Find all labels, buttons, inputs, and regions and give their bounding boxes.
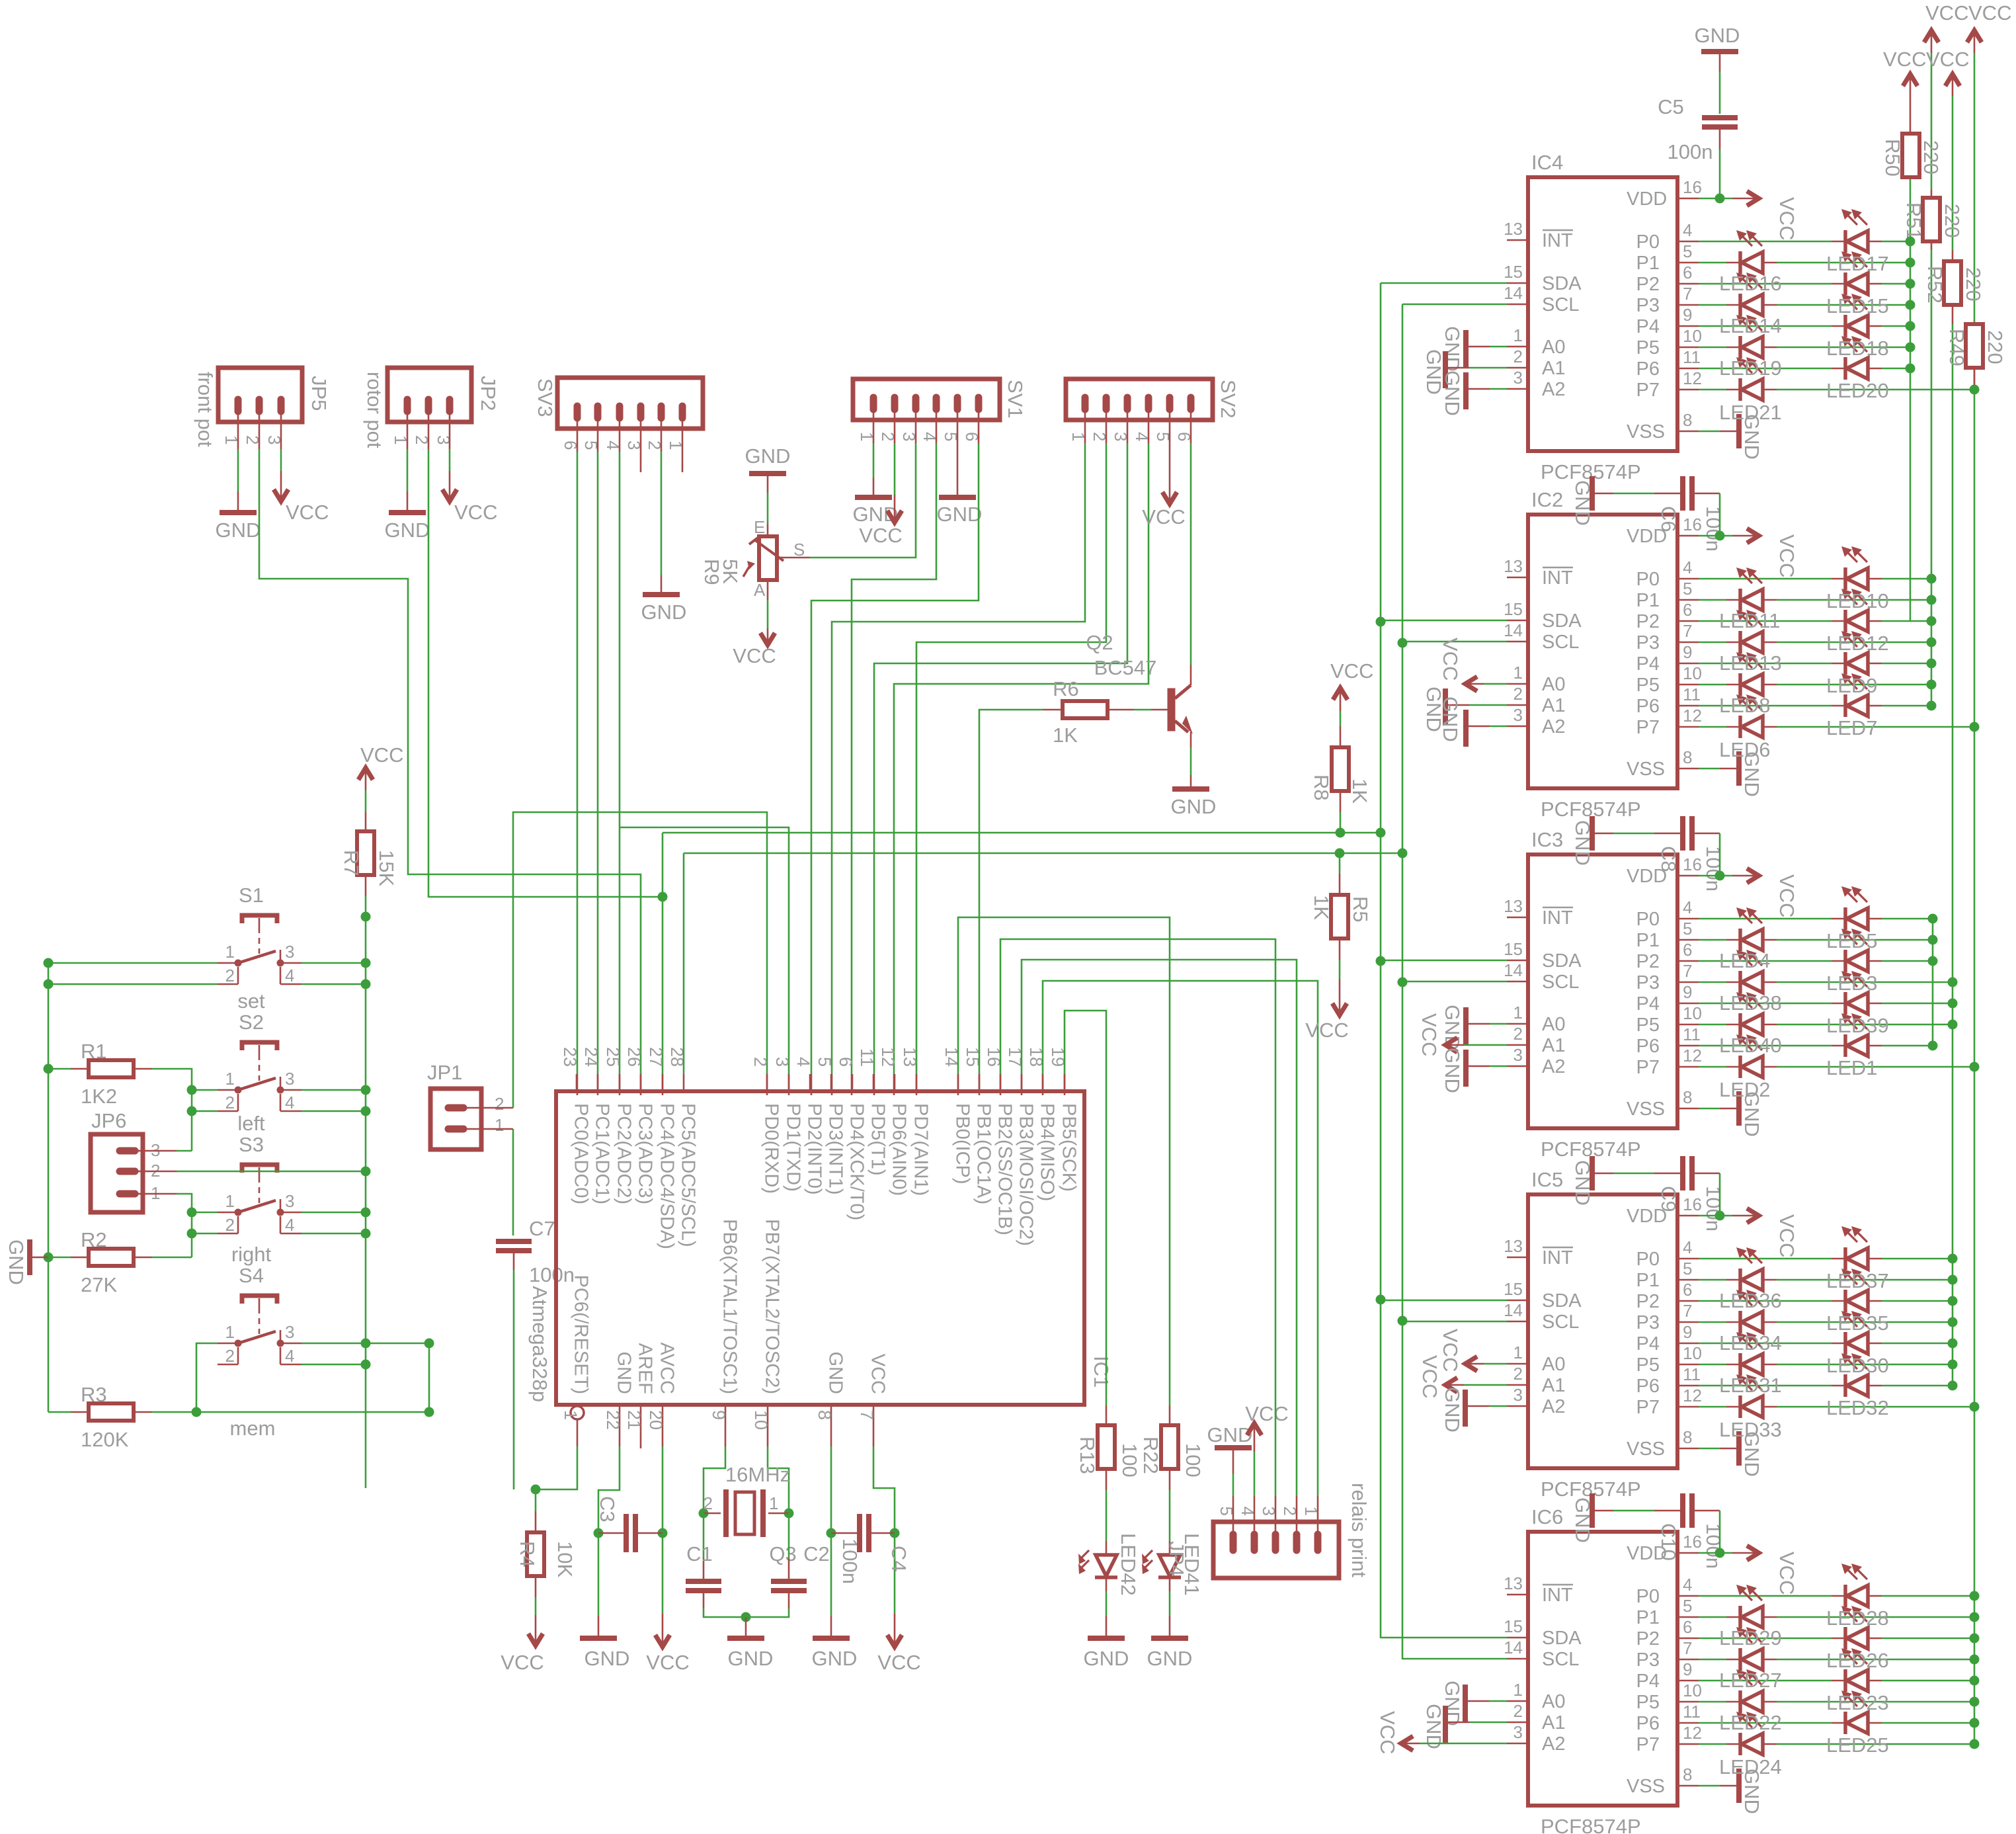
svg-text:1K2: 1K2 [81,1085,117,1108]
svg-text:VCC: VCC [1418,1355,1441,1398]
capacitor C9 100n [1571,1156,1725,1231]
ground GND (Q2) [1171,775,1217,818]
svg-text:PD0(RXD): PD0(RXD) [761,1103,782,1194]
wire R9 E to GND [767,493,769,536]
LED LED12 [1832,589,1882,632]
wire IC6 P1 row [1636,1596,1980,1628]
resistor R5 1K [1310,895,1372,938]
wire IC5 SDA [1381,1279,1582,1312]
svg-text:VCC: VCC [733,644,776,667]
capacitor C4 100n [831,1514,910,1572]
wire IC4 P7 row [1636,368,1980,401]
LED LED30 [1832,1311,1882,1355]
wire IC2 P6 row [1636,685,1937,717]
svg-text:12: 12 [1683,1046,1702,1065]
wire IC5 VDD to VCC [1627,1194,1798,1257]
svg-text:LED28: LED28 [1826,1606,1889,1630]
LED LED23 [1832,1648,1882,1692]
svg-text:6: 6 [1683,1280,1692,1300]
capacitor C2 100n [741,1513,862,1622]
wire IC5 P7 row [1636,1386,1980,1418]
svg-text:A2: A2 [1542,379,1565,400]
svg-text:LED21: LED21 [1719,401,1782,424]
wire IC5 VSS to GND [1627,1427,1763,1477]
svg-text:11: 11 [1683,1702,1701,1722]
svg-text:3: 3 [434,435,454,444]
svg-text:LED31: LED31 [1719,1374,1782,1397]
wire left rail [44,963,54,1412]
wire SV2 pin2 to IC1 pin13 [916,420,1106,1095]
wire IC3 P6 row [1636,1024,1938,1057]
svg-text:5: 5 [1683,241,1692,261]
wire IC1 pin14 to R22 [958,917,1170,1425]
LED LED10 [1832,546,1882,590]
connector JP2 (rotor pot) [363,368,500,448]
svg-text:10: 10 [751,1410,771,1430]
svg-text:SV2: SV2 [1217,380,1240,419]
wire IC6 SCL [1402,1638,1579,1670]
IC IC3 PCF8574P [1528,828,1677,1161]
svg-text:2: 2 [225,1093,235,1112]
svg-text:A2: A2 [1542,1396,1565,1417]
wire IC5 P0 row [1636,1237,1958,1270]
svg-text:9: 9 [1683,982,1692,1002]
svg-text:AVCC: AVCC [657,1343,678,1394]
svg-text:2: 2 [1513,347,1523,366]
svg-text:P5: P5 [1636,675,1660,696]
wire S3 row1 [187,1208,366,1218]
LED LED18 [1832,294,1882,337]
svg-text:27K: 27K [81,1273,117,1296]
power VCC (R9 A) [733,580,776,667]
svg-text:27: 27 [646,1047,666,1067]
LED LED39 [1832,971,1882,1015]
LED LED42 [1078,1533,1140,1616]
wire JP2 pin1 to GND [407,422,409,491]
svg-text:C5: C5 [1658,95,1684,118]
svg-text:P5: P5 [1636,1692,1660,1713]
svg-text:VCC: VCC [867,1354,889,1394]
svg-text:PD7(AIN1): PD7(AIN1) [910,1103,932,1196]
svg-text:VCC: VCC [1926,48,1969,71]
svg-text:SV3: SV3 [534,378,557,417]
IC2 LED labels [1719,589,1889,761]
wire SV1 pin1 to GND [873,420,875,478]
wire Q2 emitter to GND [1190,732,1192,775]
ground GND (JP5) [216,491,261,542]
wire JP5 pin1 to GND [237,422,239,491]
svg-text:13: 13 [1504,556,1523,576]
svg-text:P2: P2 [1636,611,1660,632]
svg-text:3: 3 [285,942,294,962]
svg-text:PB4(MISO): PB4(MISO) [1037,1103,1058,1201]
power VCC (R7 top) [358,743,403,832]
wire IC4 SCL [1402,283,1579,315]
wire IC1 pin8 to GND [815,1405,836,1616]
svg-text:LED23: LED23 [1826,1691,1889,1714]
svg-text:P7: P7 [1636,380,1660,401]
svg-text:R50: R50 [1881,139,1904,177]
svg-text:R51: R51 [1902,202,1925,240]
svg-text:C4: C4 [887,1546,910,1572]
wire SV1 pin5 to GND [957,420,959,478]
svg-text:P5: P5 [1636,1015,1660,1036]
wire IC6 P5 row [1636,1681,1980,1713]
svg-text:IC1: IC1 [1090,1356,1113,1388]
ground GND (crystal) [727,1617,773,1670]
svg-text:1: 1 [1513,663,1523,683]
svg-text:GND: GND [937,503,983,526]
svg-text:3: 3 [772,1057,792,1067]
resistor R2 27K [48,1228,192,1296]
wire LED bus v4 [1974,53,1976,1744]
wire IC3 A0 A1 A2 address pins [1507,1003,1565,1077]
svg-text:6: 6 [1683,600,1692,620]
svg-text:21: 21 [624,1410,644,1430]
LED LED3 [1832,929,1882,972]
svg-text:LED32: LED32 [1826,1396,1889,1419]
svg-text:P1: P1 [1636,930,1660,951]
svg-text:VCC: VCC [1439,638,1462,681]
wire IC3 SCL [1402,960,1579,993]
wire IC1 pin22 to GND [594,1405,624,1616]
wire IC6 P2 row [1636,1617,1980,1649]
svg-text:rotor pot: rotor pot [363,372,386,448]
resistor R4 10K [516,1489,577,1577]
wire IC2 P2 row [1636,600,1937,632]
LED LED8 [1726,652,1777,696]
wire IC6 P0 row [1636,1575,1980,1607]
svg-text:11: 11 [1683,1024,1701,1044]
wire IC3 P5 row [1636,1003,1958,1036]
connector SV1 [853,379,1027,441]
svg-text:LED40: LED40 [1719,1034,1782,1057]
wire IC4 A0 A1 A2 address pins [1507,325,1565,400]
wire R8 bottom to SDA bus [1336,791,1346,838]
svg-text:LED10: LED10 [1826,589,1889,612]
svg-text:LED24: LED24 [1719,1755,1782,1778]
svg-text:PC5(ADC5/SCL): PC5(ADC5/SCL) [678,1103,699,1247]
svg-text:PC3(ADC3): PC3(ADC3) [635,1103,656,1204]
wire SV2 pin6 to Q2 collector [1190,420,1192,665]
svg-text:9: 9 [1683,305,1692,325]
LED LED21 [1726,357,1777,401]
svg-text:S: S [793,540,805,560]
LED LED37 [1832,1226,1882,1270]
LED LED19 [1726,315,1777,358]
ground GND (SV1 pin5) [937,478,983,526]
svg-text:P5: P5 [1636,337,1660,358]
svg-text:P5: P5 [1636,1355,1660,1376]
wire IC4 P4 row [1636,305,1915,337]
svg-text:LED7: LED7 [1826,716,1878,739]
svg-text:100n: 100n [1668,140,1713,163]
wire IC6 A0 A1 A2 address pins [1507,1680,1565,1755]
svg-text:1K: 1K [1310,895,1333,920]
wire IC2 SCL [1402,620,1579,653]
svg-text:GND: GND [216,519,261,542]
svg-text:15K: 15K [375,850,398,886]
svg-text:P4: P4 [1636,993,1660,1015]
svg-text:P0: P0 [1636,1249,1660,1270]
svg-text:25: 25 [603,1047,623,1067]
svg-text:4: 4 [1683,1237,1692,1257]
svg-text:4: 4 [285,966,294,985]
capacitor C6 100n [1571,476,1725,552]
svg-text:VCC: VCC [1968,1,2011,24]
wire LED bus v1 [1910,177,1912,621]
wire IC5 P5 row [1636,1343,1958,1376]
svg-text:LED25: LED25 [1826,1733,1889,1757]
svg-text:P3: P3 [1636,1312,1660,1333]
wire SDA bus [663,283,1386,1638]
svg-text:LED36: LED36 [1719,1289,1782,1312]
svg-text:mem: mem [230,1417,276,1440]
wire IC2 P0 row [1636,558,1937,590]
svg-text:P1: P1 [1636,1607,1660,1628]
wire IC3 P7 row [1636,1046,1980,1078]
pin IC4 INT stub [1504,219,1573,251]
svg-text:14: 14 [1504,620,1523,640]
svg-text:1: 1 [1513,1343,1523,1362]
wire IC6 P6 row [1636,1702,1980,1734]
svg-text:SDA: SDA [1542,1290,1582,1312]
svg-text:GND: GND [1207,1423,1253,1446]
svg-text:5: 5 [1683,1596,1692,1616]
switch S1 [218,884,302,985]
svg-text:VCC: VCC [501,1651,544,1674]
wire SV3 pin4 to IC1 pin25 [619,429,621,1095]
svg-text:7: 7 [857,1410,877,1420]
svg-text:LED3: LED3 [1826,972,1878,995]
wire IC3 VSS to GND [1627,1087,1763,1137]
wire LED bus v3 [1952,96,1954,1386]
svg-text:LED33: LED33 [1719,1418,1782,1441]
svg-text:GND: GND [1571,1497,1594,1543]
svg-text:A1: A1 [1542,358,1565,379]
wire S1 row1 [44,958,366,968]
power VCC (R8 top) [1330,659,1373,747]
svg-text:VCC: VCC [454,501,497,524]
wire IC2 P3 row [1636,621,1937,653]
svg-text:1: 1 [225,1191,235,1211]
svg-text:PB3(MOSI/OC2): PB3(MOSI/OC2) [1016,1103,1037,1246]
svg-text:SCL: SCL [1542,1312,1579,1333]
svg-text:VDD: VDD [1627,1206,1667,1227]
LED LED26 [1832,1606,1882,1649]
svg-text:LED14: LED14 [1719,314,1782,337]
svg-text:Q3: Q3 [769,1542,796,1565]
svg-text:A1: A1 [1542,1375,1565,1396]
svg-text:PB2(SS/OC1B): PB2(SS/OC1B) [994,1103,1016,1235]
svg-text:SDA: SDA [1542,610,1582,632]
resistor R3 120K [48,1383,196,1451]
svg-text:right: right [231,1243,272,1266]
wire IC2 VSS to GND [1627,747,1763,797]
svg-text:GND: GND [385,519,430,542]
svg-text:14: 14 [1504,1638,1523,1657]
LED LED16 [1726,230,1777,274]
power VCC (JP2 pin3) [442,422,497,524]
wire S2 row2 [187,1106,366,1116]
svg-text:JP1: JP1 [427,1061,462,1084]
ground GND (IC4 A0) [1441,326,1507,372]
svg-text:R13: R13 [1076,1437,1099,1474]
svg-text:R52: R52 [1923,266,1947,304]
svg-text:P1: P1 [1636,253,1660,274]
svg-text:20: 20 [646,1410,666,1430]
svg-text:10: 10 [1683,1681,1702,1700]
LED LED1 [1832,1013,1882,1057]
svg-text:12: 12 [1683,706,1702,726]
svg-text:4: 4 [1683,1575,1692,1595]
svg-text:15: 15 [1504,262,1523,282]
svg-text:PC1(ADC1): PC1(ADC1) [592,1103,613,1204]
svg-text:P2: P2 [1636,1628,1660,1649]
svg-text:1K: 1K [1348,778,1371,804]
svg-text:INT: INT [1542,567,1573,589]
svg-text:11: 11 [1683,685,1701,704]
svg-text:LED34: LED34 [1719,1331,1782,1355]
wire IC6 VSS to GND [1627,1765,1763,1814]
svg-text:100: 100 [1118,1443,1141,1478]
svg-text:PC6(/RESET): PC6(/RESET) [571,1275,592,1394]
svg-text:P0: P0 [1636,231,1660,253]
wire IC2 SDA [1381,599,1582,632]
svg-text:9: 9 [1683,1322,1692,1342]
power VCC (JP5 pin3) [274,422,329,524]
resistor R51 220 [1902,190,1964,250]
svg-text:16: 16 [1683,515,1702,534]
ground GND (left rail) [5,1239,48,1285]
ground GND (IC6 A1) [1422,1704,1507,1749]
IC1 pin1 RESET [531,1406,585,1495]
wire IC6 P3 row [1636,1638,1980,1671]
svg-text:23: 23 [560,1047,580,1067]
svg-text:C1: C1 [686,1542,713,1565]
wire R9 S lead [777,557,784,559]
resistor R13 100 [1076,1425,1141,1541]
wire IC6 VDD to VCC [1627,1532,1798,1595]
LED LED35 [1832,1269,1882,1312]
resistor R8 1K [1310,747,1371,804]
svg-text:VCC: VCC [286,501,329,524]
svg-text:1: 1 [1513,1003,1523,1022]
svg-text:VCC: VCC [1925,1,1968,24]
svg-text:P2: P2 [1636,1291,1660,1312]
LED LED13 [1726,610,1777,653]
wire IC2 P4 row [1636,642,1937,675]
LED LED31 [1726,1332,1777,1376]
svg-text:P2: P2 [1636,274,1660,295]
svg-text:R4: R4 [516,1541,539,1567]
svg-text:SCL: SCL [1542,632,1579,653]
svg-text:LED35: LED35 [1826,1312,1889,1335]
svg-text:2: 2 [1513,684,1523,704]
svg-text:16MHz: 16MHz [725,1463,790,1486]
svg-text:100n: 100n [1702,1186,1725,1231]
svg-text:SDA: SDA [1542,1628,1582,1649]
svg-text:LED42: LED42 [1117,1533,1140,1596]
svg-text:P0: P0 [1636,1586,1660,1607]
svg-text:1: 1 [225,1069,235,1089]
svg-text:GND: GND [585,1647,630,1670]
LED LED41 [1142,1533,1203,1616]
svg-text:PB6(XTAL1/TOSC1): PB6(XTAL1/TOSC1) [719,1219,741,1394]
wire IC3 P1 row [1636,919,1938,951]
svg-text:GND: GND [1422,1704,1445,1749]
LED LED2 [1726,1034,1777,1078]
svg-text:VCC: VCC [1775,534,1798,577]
svg-text:11: 11 [1683,1364,1701,1384]
svg-text:SCL: SCL [1542,294,1579,315]
svg-text:P4: P4 [1636,1333,1660,1355]
LED LED38 [1726,950,1777,993]
ground GND (JP4 pin5) [1207,1423,1253,1522]
wire IC5 P3 row [1636,1301,1958,1333]
svg-text:R8: R8 [1310,774,1333,801]
wire IC6 P7 row [1636,1723,1980,1755]
capacitor C10 100n [1571,1493,1725,1569]
svg-text:VCC: VCC [1775,1214,1798,1257]
svg-text:26: 26 [624,1047,644,1067]
power VCC (SV2 pin5) [1142,420,1185,528]
LED LED20 [1832,336,1882,380]
wire IC5 P1 row [1636,1259,1958,1291]
svg-text:16: 16 [1683,1194,1702,1214]
svg-text:3: 3 [1513,1722,1523,1742]
svg-text:LED8: LED8 [1719,694,1771,717]
svg-text:P1: P1 [1636,1270,1660,1291]
svg-text:PB7(XTAL2/TOSC2): PB7(XTAL2/TOSC2) [762,1219,783,1394]
svg-text:VSS: VSS [1627,1099,1665,1120]
IC IC5 PCF8574P [1528,1168,1677,1501]
ground GND (R9) [745,444,791,493]
svg-text:GND: GND [1571,820,1594,866]
svg-text:GND: GND [641,601,687,624]
ground GND (IC6 A0) [1441,1681,1507,1726]
wire IC5 P6 row [1636,1364,1958,1397]
svg-text:A0: A0 [1542,674,1565,695]
capacitor C7 100n [496,1217,575,1489]
ground GND (IC3 A2) [1441,1048,1507,1093]
wire JP1 pin2 to IC1 pin2 [481,812,767,1108]
svg-text:LED30: LED30 [1826,1354,1889,1377]
resistor R1 1K2 [48,1040,192,1151]
LED LED34 [1726,1290,1777,1333]
wire JP6 pin1 to S3 [143,1194,192,1257]
svg-text:LED38: LED38 [1719,991,1782,1015]
svg-text:14: 14 [1504,1300,1523,1320]
wire IC5 SCL [1402,1300,1579,1333]
svg-text:R22: R22 [1139,1437,1162,1474]
wire IC4 P1 row [1636,241,1915,274]
svg-text:VCC: VCC [859,524,902,547]
pin IC6 INT stub [1504,1573,1573,1606]
svg-text:100n: 100n [1702,846,1725,892]
svg-text:PD5(T1): PD5(T1) [867,1103,889,1176]
svg-text:8: 8 [1683,747,1692,767]
ground GND (C5) [1695,24,1740,114]
svg-text:VSS: VSS [1627,421,1665,442]
svg-text:10: 10 [1683,1003,1702,1023]
svg-text:INT: INT [1542,1585,1573,1606]
wire JP6 pin2 to rail [143,1171,366,1173]
wire IC1 pin9 to crystal [699,1405,729,1519]
svg-text:1: 1 [225,1322,235,1342]
svg-text:12: 12 [878,1047,898,1067]
svg-text:R1: R1 [81,1040,107,1063]
